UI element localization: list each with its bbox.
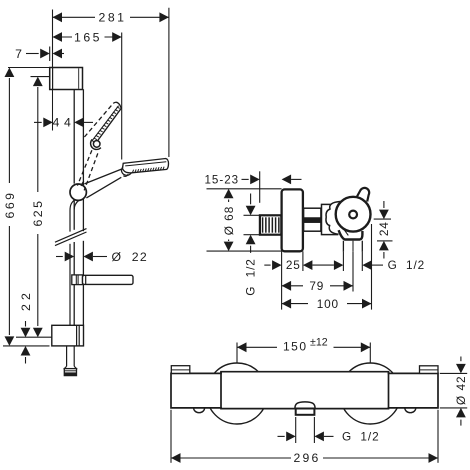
svg-text:7: 7	[15, 47, 22, 61]
svg-text:24: 24	[377, 221, 391, 236]
svg-text:25: 25	[286, 258, 301, 272]
svg-text:165: 165	[74, 30, 102, 44]
svg-text:150: 150	[283, 340, 308, 354]
svg-text:625: 625	[31, 198, 45, 226]
svg-text:281: 281	[98, 11, 126, 25]
svg-text:Ø 22: Ø 22	[112, 250, 149, 264]
svg-text:100: 100	[317, 297, 339, 311]
svg-text:±12: ±12	[310, 337, 328, 349]
svg-text:296: 296	[294, 451, 321, 465]
svg-text:Ø 42: Ø 42	[454, 375, 468, 405]
svg-text:22: 22	[19, 289, 33, 311]
svg-text:44: 44	[53, 116, 76, 130]
svg-text:15-23: 15-23	[204, 173, 239, 186]
svg-text:669: 669	[3, 190, 17, 218]
svg-text:G 1/2: G 1/2	[244, 258, 258, 296]
svg-text:G 1/2: G 1/2	[388, 258, 426, 272]
svg-text:Ø 68: Ø 68	[222, 206, 236, 236]
svg-text:G 1/2: G 1/2	[342, 430, 380, 444]
svg-text:79: 79	[309, 279, 324, 293]
